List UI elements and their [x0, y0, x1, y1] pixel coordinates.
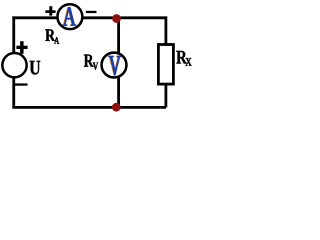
voltmeter letter V: [108, 56, 120, 75]
wire voltmeter branch upper: [117, 18, 120, 54]
wire right branch lower: [164, 84, 167, 107]
wire bottom rail: [12, 106, 166, 109]
minus sign at battery: [15, 83, 28, 85]
node dot bottom junction: [112, 103, 121, 112]
voltage source U: [2, 53, 26, 77]
wire voltmeter branch lower: [117, 76, 120, 107]
label RX: [176, 51, 187, 64]
label RV: [84, 55, 94, 67]
wire left vertical (bottom): [12, 75, 15, 107]
minus sign at ammeter: [86, 11, 97, 13]
wire right branch upper: [164, 16, 167, 44]
wire left vertical (top): [12, 16, 15, 56]
label RA: [45, 29, 55, 41]
label U: [30, 61, 41, 75]
plus sign at ammeter: [45, 6, 55, 15]
resistor RX: [158, 45, 173, 85]
wire top rail: [12, 16, 167, 19]
ammeter letter A: [62, 7, 75, 25]
plus sign at battery: [16, 41, 27, 54]
voltmeter V circle: [102, 53, 127, 78]
ammeter A circle: [57, 4, 82, 29]
node dot top junction: [112, 14, 121, 23]
